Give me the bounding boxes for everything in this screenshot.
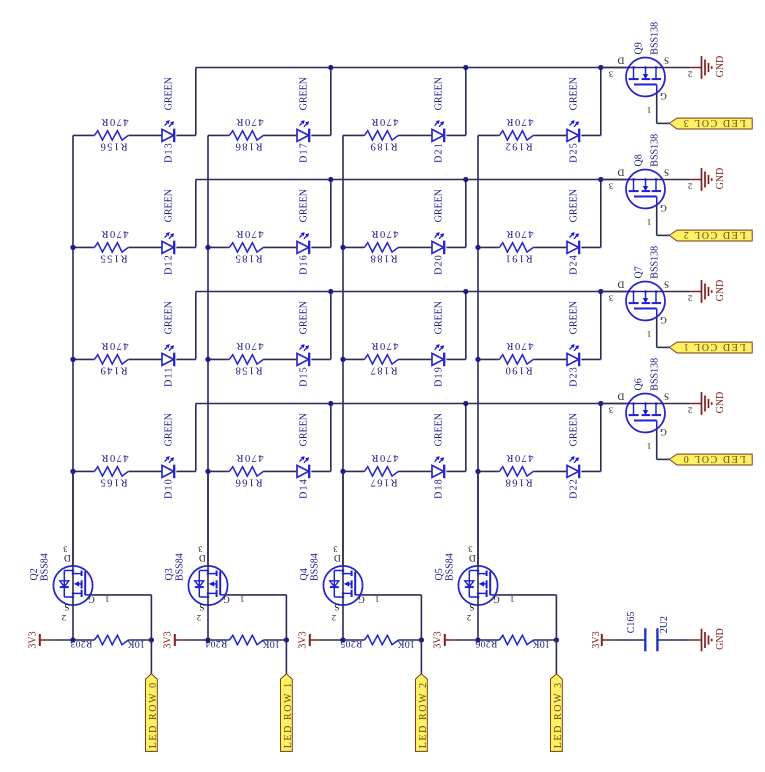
svg-text:D: D [469,552,476,562]
svg-text:GREEN: GREEN [434,301,445,334]
svg-text:3V3: 3V3 [28,631,39,648]
svg-text:D: D [617,279,624,289]
svg-text:470R: 470R [235,340,264,351]
svg-text:D17: D17 [299,142,310,163]
svg-text:D18: D18 [434,478,445,499]
svg-text:R189: R189 [369,141,398,152]
svg-text:470R: 470R [100,116,129,127]
svg-text:3: 3 [608,70,613,80]
svg-text:1: 1 [375,595,379,605]
svg-text:470R: 470R [235,228,264,239]
svg-text:R187: R187 [369,365,398,376]
svg-text:D: D [334,552,341,562]
svg-text:470R: 470R [370,340,399,351]
svg-text:LED COL 2: LED COL 2 [682,229,745,240]
svg-text:D11: D11 [164,366,175,386]
svg-text:3: 3 [608,294,613,304]
svg-text:LED ROW 2: LED ROW 2 [418,681,429,748]
svg-text:2: 2 [688,406,692,416]
svg-text:R168: R168 [504,477,533,488]
svg-text:S: S [469,601,474,611]
svg-text:Q6: Q6 [634,378,645,390]
svg-text:2: 2 [688,294,692,304]
svg-text:1: 1 [105,595,109,605]
svg-text:BSS84: BSS84 [444,553,455,581]
svg-text:R149: R149 [99,365,128,376]
svg-text:GREEN: GREEN [299,301,310,334]
svg-text:D25: D25 [569,142,580,163]
svg-text:470R: 470R [235,452,264,463]
svg-text:GREEN: GREEN [434,77,445,110]
svg-text:470R: 470R [100,340,129,351]
svg-text:D23: D23 [569,366,580,387]
svg-text:2: 2 [467,613,471,623]
svg-text:S: S [64,601,69,611]
svg-text:GREEN: GREEN [434,189,445,222]
svg-text:D16: D16 [299,254,310,275]
svg-text:R191: R191 [504,253,533,264]
svg-text:470R: 470R [505,228,534,239]
svg-text:D21: D21 [434,142,445,163]
svg-text:3: 3 [608,406,613,416]
svg-text:R204: R204 [205,638,227,649]
svg-text:470R: 470R [100,228,129,239]
svg-text:GREEN: GREEN [164,413,175,446]
svg-text:G: G [358,594,365,604]
svg-text:LED COL 0: LED COL 0 [682,453,745,464]
svg-text:Q7: Q7 [634,266,645,278]
svg-text:GREEN: GREEN [164,301,175,334]
svg-text:Q9: Q9 [634,42,645,54]
svg-text:10K: 10K [262,638,280,649]
svg-text:10K: 10K [532,638,550,649]
svg-text:S: S [199,601,204,611]
svg-text:LED COL 1: LED COL 1 [682,341,745,352]
svg-text:BSS84: BSS84 [174,553,185,581]
svg-text:1: 1 [647,217,651,227]
svg-text:R185: R185 [234,253,263,264]
svg-text:G: G [660,90,667,100]
svg-text:D: D [617,55,624,65]
svg-text:D10: D10 [164,478,175,499]
svg-text:470R: 470R [505,116,534,127]
svg-text:GND: GND [715,280,726,302]
svg-text:Q5: Q5 [434,568,445,580]
svg-text:GND: GND [715,56,726,78]
svg-text:LED ROW 0: LED ROW 0 [148,681,159,748]
svg-text:GREEN: GREEN [299,413,310,446]
svg-text:Q8: Q8 [634,154,645,166]
svg-text:3V3: 3V3 [433,631,444,648]
svg-text:G: G [223,594,230,604]
svg-text:GREEN: GREEN [299,189,310,222]
svg-text:R155: R155 [99,253,128,264]
svg-text:D22: D22 [569,478,580,499]
svg-text:C165: C165 [626,612,637,634]
svg-text:G: G [493,594,500,604]
svg-text:R186: R186 [234,141,263,152]
svg-text:GND: GND [715,392,726,414]
svg-text:R192: R192 [504,141,533,152]
svg-text:LED ROW 1: LED ROW 1 [283,681,294,748]
svg-text:R190: R190 [504,365,533,376]
svg-text:BSS138: BSS138 [649,246,660,279]
svg-text:1: 1 [647,441,651,451]
svg-text:R167: R167 [369,477,398,488]
svg-text:G: G [660,314,667,324]
svg-text:GREEN: GREEN [164,189,175,222]
svg-text:2: 2 [688,182,692,192]
svg-text:R205: R205 [340,638,362,649]
svg-text:2U2: 2U2 [659,616,670,633]
svg-text:3V3: 3V3 [298,631,309,648]
svg-text:D: D [64,552,71,562]
svg-text:BSS84: BSS84 [39,553,50,581]
svg-text:BSS138: BSS138 [649,358,660,391]
svg-text:LED COL 3: LED COL 3 [682,117,745,128]
svg-text:LED ROW 3: LED ROW 3 [553,681,564,748]
svg-text:2: 2 [688,70,692,80]
svg-text:R158: R158 [234,365,263,376]
svg-text:GREEN: GREEN [569,301,580,334]
svg-text:D24: D24 [569,254,580,275]
svg-text:BSS84: BSS84 [309,553,320,581]
svg-text:BSS138: BSS138 [649,22,660,55]
svg-text:D12: D12 [164,254,175,275]
svg-text:2: 2 [197,613,201,623]
svg-text:10K: 10K [397,638,415,649]
svg-text:R166: R166 [234,477,263,488]
svg-text:GND: GND [715,168,726,190]
svg-text:G: G [660,202,667,212]
svg-text:R203: R203 [70,638,92,649]
svg-text:3: 3 [608,182,613,192]
svg-text:R188: R188 [369,253,398,264]
svg-text:D: D [617,167,624,177]
svg-text:2: 2 [332,613,336,623]
svg-text:1: 1 [647,329,651,339]
svg-text:R165: R165 [99,477,128,488]
svg-text:2: 2 [62,613,66,623]
svg-text:G: G [88,594,95,604]
svg-text:D20: D20 [434,254,445,275]
svg-text:470R: 470R [505,452,534,463]
svg-text:GND: GND [715,628,726,650]
svg-text:D19: D19 [434,366,445,387]
svg-text:R156: R156 [99,141,128,152]
svg-text:S: S [664,167,669,177]
svg-text:1: 1 [510,595,514,605]
svg-text:D: D [617,391,624,401]
svg-text:470R: 470R [100,452,129,463]
svg-text:Q4: Q4 [299,568,310,580]
svg-text:3V3: 3V3 [591,631,602,648]
svg-text:470R: 470R [235,116,264,127]
svg-text:D14: D14 [299,478,310,499]
svg-text:S: S [664,55,669,65]
svg-text:S: S [664,391,669,401]
svg-text:S: S [664,279,669,289]
svg-text:470R: 470R [505,340,534,351]
svg-text:GREEN: GREEN [569,189,580,222]
svg-text:S: S [334,601,339,611]
svg-text:D13: D13 [164,142,175,163]
svg-text:GREEN: GREEN [569,77,580,110]
svg-text:D: D [199,552,206,562]
svg-text:GREEN: GREEN [569,413,580,446]
svg-text:GREEN: GREEN [164,77,175,110]
svg-text:D15: D15 [299,366,310,387]
svg-text:R206: R206 [475,638,497,649]
svg-text:Q3: Q3 [164,568,175,580]
svg-text:1: 1 [240,595,244,605]
svg-text:10K: 10K [127,638,145,649]
svg-text:3V3: 3V3 [163,631,174,648]
svg-text:1: 1 [647,105,651,115]
svg-text:470R: 470R [370,452,399,463]
svg-text:GREEN: GREEN [299,77,310,110]
svg-text:BSS138: BSS138 [649,134,660,167]
svg-text:Q2: Q2 [29,568,40,580]
svg-text:470R: 470R [370,228,399,239]
svg-text:GREEN: GREEN [434,413,445,446]
svg-text:470R: 470R [370,116,399,127]
svg-text:G: G [660,426,667,436]
